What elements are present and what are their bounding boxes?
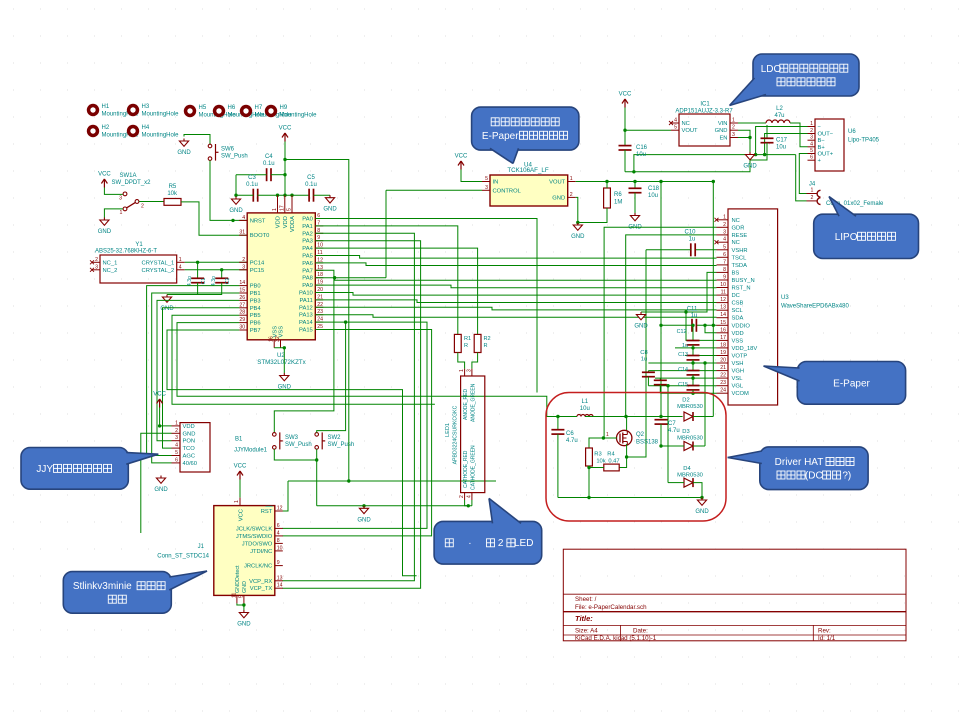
svg-text:L1: L1 (581, 399, 588, 405)
svg-text:21: 21 (720, 365, 726, 371)
svg-text:GND: GND (323, 207, 337, 213)
wire SW3/SW2 commons (274, 449, 316, 460)
wire VSH riser to D3 (704, 363, 706, 446)
svg-text:Size: A4: Size: A4 (575, 628, 598, 635)
svg-text:E-Paper: E-Paper (833, 378, 870, 389)
svg-text:PON: PON (183, 439, 196, 445)
U2 pin 25 PA15 (315, 329, 323, 331)
svg-text:VDD: VDD (276, 216, 282, 228)
svg-text:JRCLK/NC: JRCLK/NC (244, 564, 272, 570)
junction VCC branch (347, 479, 350, 482)
module B1 JJYModule1 (180, 423, 210, 472)
svg-text:GND: GND (571, 234, 585, 240)
J1 pin 12 RST (275, 510, 283, 512)
wire EPD VGH (648, 370, 716, 372)
svg-text:SW_Push: SW_Push (328, 442, 355, 448)
U3 pin 4 NC (717, 241, 729, 243)
resistor R4 0.47 (604, 464, 619, 471)
svg-text:SW6: SW6 (221, 147, 235, 153)
wire R3 bottom to rail (588, 468, 590, 498)
U3 pin 24 VCOM (717, 392, 729, 394)
svg-text:RST_N: RST_N (732, 286, 751, 292)
wire GND to SW6 (184, 135, 210, 145)
callout LIPO charger note (814, 214, 919, 258)
svg-text:4: 4 (810, 141, 813, 147)
svg-text:PC14: PC14 (250, 260, 265, 266)
wire C4 row (236, 174, 267, 176)
svg-text:5: 5 (287, 208, 293, 211)
wire PA1 to LED R1 (315, 226, 458, 335)
J1 pins 11/5 GNDDetect GND (236, 595, 238, 603)
wire PB3 to JJY PON (157, 300, 239, 440)
U2 pin 15 PB1 (239, 292, 247, 294)
svg-text:D2: D2 (682, 398, 689, 404)
svg-text:NC_2: NC_2 (103, 268, 118, 274)
push button SW2 SW_Push (315, 433, 319, 437)
svg-text:2: 2 (95, 257, 98, 263)
junction driver GND (700, 496, 703, 499)
wire EPD VSS to GND (686, 312, 717, 340)
B1 pin 5 AGC (172, 455, 181, 457)
svg-text:5: 5 (810, 148, 813, 154)
svg-text:10u: 10u (776, 145, 786, 151)
svg-text:GND: GND (634, 324, 648, 330)
mounting hole H4 (127, 125, 139, 137)
svg-text:8: 8 (277, 538, 280, 544)
svg-text:22: 22 (720, 373, 726, 379)
capacitor C1 4.3p (197, 262, 199, 278)
svg-text:1: 1 (811, 188, 814, 194)
svg-text:?): ?) (842, 471, 851, 482)
B1 pin 6 40/60 (172, 462, 181, 464)
svg-text:VOTP: VOTP (732, 354, 748, 360)
wire PB4 to JJY TCO (163, 308, 240, 448)
svg-text:2: 2 (570, 192, 573, 198)
svg-text:VIN: VIN (718, 121, 728, 127)
svg-text:C1: C1 (201, 278, 207, 285)
mounting hole H3 (127, 104, 139, 116)
svg-text:40/60: 40/60 (183, 461, 198, 467)
svg-text:C15: C15 (678, 382, 688, 388)
svg-text:7: 7 (723, 259, 726, 265)
wire J1 GND (237, 603, 244, 610)
svg-text:2: 2 (141, 204, 144, 210)
callout load-switch note (472, 107, 579, 150)
svg-text:1u: 1u (691, 313, 698, 319)
junction SW2/PA14 (344, 320, 347, 323)
junction LED cathode (467, 504, 470, 507)
svg-text:1u: 1u (689, 237, 696, 243)
svg-text:GND: GND (552, 195, 565, 201)
wire VCC branch right (285, 160, 349, 482)
svg-text:GNDDetect: GNDDetect (235, 565, 241, 593)
U3 pin 21 VGH (717, 370, 729, 372)
callout E-Paper note (797, 362, 905, 405)
svg-text:OUT+: OUT+ (818, 152, 834, 158)
svg-text:5: 5 (238, 595, 244, 598)
U2 VDD power pins 1/17/5 (277, 195, 279, 213)
svg-text:14: 14 (720, 312, 726, 318)
svg-text:CATHODE_GREEN: CATHODE_GREEN (471, 445, 477, 490)
resistor R1 (454, 334, 461, 352)
junction gate (602, 436, 605, 439)
svg-text:VSHR: VSHR (732, 248, 748, 254)
svg-text:10u: 10u (636, 152, 646, 158)
svg-text:JTDO/SWO: JTDO/SWO (242, 541, 273, 547)
svg-text:1M: 1M (614, 200, 622, 206)
svg-text:17: 17 (720, 335, 726, 341)
U3 pin 14 SDA (717, 317, 729, 319)
capacitor C13 (chain) (692, 345, 694, 356)
U3 pin 17 VSS (717, 339, 729, 341)
connector J1 Conn_ST_STDC14 (214, 506, 275, 596)
callout LDO note (753, 54, 859, 96)
wire EPD VSH (648, 362, 716, 364)
svg-text:6: 6 (175, 457, 178, 463)
svg-text:PA0: PA0 (302, 217, 313, 223)
svg-text:C17: C17 (776, 138, 788, 144)
wire EPD VOTP (685, 355, 717, 357)
capacitor C4 0.1u (266, 168, 268, 181)
ground GND (driver) (701, 498, 703, 501)
svg-text:CRYSTAL_2: CRYSTAL_2 (142, 268, 175, 274)
U4 pin 1 VOUT (568, 181, 576, 183)
svg-text:3: 3 (467, 369, 473, 372)
svg-text:VCC: VCC (619, 92, 632, 98)
wire PB1 to JJY 40/60 (152, 293, 240, 463)
svg-text:PA1: PA1 (302, 224, 313, 230)
U6 pin 3 (808, 139, 816, 141)
load switch U4 TCK106AF_LF (490, 175, 568, 206)
ground GND (SW1A) (103, 218, 105, 221)
svg-text:C18: C18 (648, 186, 660, 192)
U4 pin 2 GND (568, 196, 576, 198)
mounting hole H2 (87, 125, 99, 137)
U3 pin 6 TSCL (717, 256, 729, 258)
svg-text:File: e-PaperCalendar.sch: File: e-PaperCalendar.sch (575, 604, 647, 611)
svg-text:18: 18 (720, 342, 726, 348)
svg-text:C13: C13 (678, 352, 688, 358)
junction VCC/C16 (623, 129, 626, 132)
svg-text:E-Paper: E-Paper (482, 131, 519, 142)
svg-text:PB7: PB7 (250, 328, 261, 334)
U3 pin 10 RST_N (717, 287, 729, 289)
svg-text:RST: RST (261, 509, 273, 515)
svg-text:3: 3 (732, 132, 735, 138)
svg-text:OUT−: OUT− (818, 132, 834, 138)
svg-text:H6: H6 (228, 105, 236, 111)
resistor R5 10k (164, 199, 181, 206)
svg-text:JCLK/SWCLK: JCLK/SWCLK (236, 526, 273, 532)
svg-text:C10: C10 (684, 230, 696, 236)
U2 pin 13 PA7 (315, 269, 323, 271)
svg-text:VOUT: VOUT (682, 128, 699, 134)
svg-text:Rev:: Rev: (818, 628, 831, 635)
svg-text:1: 1 (723, 214, 726, 220)
svg-text:VCC: VCC (455, 154, 468, 160)
wire VDDIO row (697, 324, 717, 326)
wire CRYSTAL_2 to PC15 (185, 269, 248, 271)
transistor Q2 BSS138 (617, 430, 632, 445)
junction rail/D2 riser (712, 180, 715, 183)
svg-text:VCC: VCC (234, 464, 247, 470)
LED LED1 APBD3224CSURKCGKC (461, 376, 485, 493)
svg-text:PA12: PA12 (299, 305, 313, 311)
U2 pin 6 PA0 (315, 218, 323, 220)
svg-text:1: 1 (234, 500, 240, 503)
svg-text:3: 3 (810, 135, 813, 141)
svg-text:·: · (468, 538, 471, 549)
U2 pin 24 PA14 (315, 321, 323, 323)
B1 pin 2 GND (172, 432, 181, 434)
svg-text:MBR0530: MBR0530 (677, 436, 703, 442)
U2 pin 26 PB3 (239, 299, 247, 301)
wire VOUT rail riser (VDDIO/C7) (660, 182, 662, 417)
svg-text:CRYSTAL_1: CRYSTAL_1 (142, 260, 175, 266)
svg-text:C3: C3 (248, 175, 256, 181)
svg-text:3: 3 (175, 435, 178, 441)
switch SW1A SW_DPDT_x2 (104, 188, 122, 195)
IC1 pin 4 NC (671, 122, 679, 124)
svg-text:R3: R3 (594, 452, 601, 458)
wire VDD_18V riser to D2 (712, 182, 714, 417)
callout JJY note (21, 448, 128, 490)
J1 pin 10 JTDI/NC (275, 550, 283, 552)
wire VGL riser to D4 (667, 386, 669, 483)
U2 pin 29 PB6 (239, 322, 247, 324)
wire charge-pump rail VDD_18V (675, 347, 717, 349)
mounting hole H5 (184, 105, 196, 117)
svg-text:ADP151AUJZ-3.3-R7: ADP151AUJZ-3.3-R7 (675, 109, 733, 115)
ground GND (J1) (243, 610, 245, 613)
U2 pin 9 PA3 (315, 240, 323, 242)
U2 pin 10 PA4 (315, 247, 323, 249)
svg-text:BS: BS (732, 270, 740, 276)
svg-text:ANODE_RED: ANODE_RED (463, 388, 469, 420)
wire PB6 to driver (177, 323, 558, 417)
svg-text:24: 24 (720, 388, 726, 394)
svg-text:VDDIO: VDDIO (732, 323, 751, 329)
svg-text:PB0: PB0 (250, 284, 261, 290)
capacitor C11 1u (VDDIO) (691, 319, 693, 332)
U2 pin 2 PC14 (239, 261, 247, 263)
svg-text:Y1: Y1 (135, 242, 143, 248)
svg-text:BSS138: BSS138 (636, 440, 659, 446)
svg-text:1: 1 (732, 118, 735, 124)
svg-text:ANODE_GREEN: ANODE_GREEN (471, 383, 477, 422)
svg-text:SCL: SCL (732, 308, 744, 314)
wire Q2 drain (626, 417, 628, 431)
capacitor C10 1u (690, 243, 692, 256)
svg-text:GND: GND (177, 150, 191, 156)
svg-text:R: R (464, 343, 468, 349)
svg-text:Driver HAT: Driver HAT (775, 457, 824, 468)
U4 pin 5 IN (482, 181, 490, 183)
wire EN tie (738, 137, 750, 139)
svg-text:VGL: VGL (732, 384, 744, 390)
B1 pin 3 PON (172, 440, 181, 442)
svg-text:SW_DPDT_x2: SW_DPDT_x2 (111, 180, 151, 186)
junction VGL riser D4 (666, 384, 669, 387)
svg-text:B+: B+ (818, 145, 826, 151)
junction Q2 drain (624, 415, 627, 418)
U3 pin 15 VDDIO (717, 324, 729, 326)
svg-text:VCC: VCC (279, 126, 292, 132)
wire L2 to B+ (790, 123, 808, 147)
svg-text:Date:: Date: (633, 628, 648, 635)
svg-text:PA9: PA9 (302, 283, 313, 289)
svg-text:H9: H9 (280, 105, 288, 111)
svg-text:4: 4 (467, 495, 473, 498)
ground GND (C5) (329, 195, 331, 198)
svg-text:PB4: PB4 (250, 306, 262, 312)
svg-text:PC15: PC15 (250, 268, 265, 274)
B1 pin 4 TCO (172, 447, 181, 449)
U6 pin 1 (808, 126, 816, 128)
wire VCC to J1 (239, 480, 241, 498)
svg-text:H4: H4 (142, 125, 150, 131)
capacitor C17 10u (766, 125, 768, 138)
wire LED cathode row (317, 505, 469, 507)
svg-text:VSS: VSS (272, 326, 278, 338)
wire OUT- bus to J4 pin2 (796, 155, 807, 201)
wire VCC down to VDD rail (284, 142, 286, 196)
svg-text:Conn_ST_STDC14: Conn_ST_STDC14 (157, 554, 209, 560)
wire PA13 to EPD SDA (315, 315, 716, 318)
svg-text:10k: 10k (167, 191, 178, 197)
svg-text:5: 5 (485, 176, 488, 182)
svg-text:D4: D4 (683, 466, 691, 472)
wire VSS to GND (274, 348, 284, 373)
junction B1 VDD (158, 424, 161, 427)
U2 pin 8 PA2 (315, 232, 323, 234)
svg-text:SW1A: SW1A (119, 173, 136, 179)
wire PA14 to J1 SWCLK (282, 322, 427, 528)
wire U6 pin1 - down (756, 127, 808, 155)
svg-text:J4: J4 (809, 182, 816, 188)
junction VDD/VDDIO (703, 324, 706, 327)
svg-text:C14: C14 (678, 367, 688, 373)
U2 pin 14 PB0 (239, 285, 247, 287)
svg-text:16: 16 (720, 327, 726, 333)
junction OUT- taps (754, 153, 757, 156)
svg-text:AGC: AGC (183, 454, 196, 460)
wire PA3 to J1 VCP_TX (282, 241, 420, 589)
mounting hole H9 (265, 105, 277, 117)
svg-text:SDA: SDA (732, 316, 744, 322)
wire SW1A to GND (104, 209, 122, 218)
svg-text:JJYModule1: JJYModule1 (234, 448, 268, 454)
svg-text:R2: R2 (484, 336, 491, 342)
callout ST-Link note (63, 572, 171, 614)
svg-text:B−: B− (818, 138, 826, 144)
wire PA6 to EPD TSDA (315, 263, 716, 266)
svg-text:C16: C16 (636, 145, 648, 151)
svg-text:4: 4 (175, 443, 178, 449)
wire C3 left / GND riser (236, 194, 253, 196)
junction PA8/BUSY (333, 276, 336, 279)
svg-text:TCK106AF_LF: TCK106AF_LF (507, 167, 548, 174)
svg-text:GND: GND (237, 622, 251, 628)
resistor R6 1M (604, 188, 611, 208)
svg-text:PA11: PA11 (299, 298, 312, 304)
junction EN (748, 136, 751, 139)
svg-text:0.1u: 0.1u (305, 182, 317, 188)
svg-text:5: 5 (674, 125, 677, 131)
svg-text:6: 6 (723, 252, 726, 258)
wire SW6 to NRST (210, 161, 247, 221)
svg-text:(DC: (DC (805, 471, 823, 482)
capacitor C7 4.7u (655, 419, 668, 421)
wire EPD BS to GND (641, 272, 717, 312)
U2 pin 7 PA1 (315, 225, 323, 227)
mounting hole H6 (213, 105, 225, 117)
svg-text:DC: DC (732, 293, 740, 299)
svg-text:VGH: VGH (732, 369, 745, 375)
svg-text:10: 10 (720, 282, 726, 288)
charger U6 Lipo-TP405 (815, 119, 844, 171)
U2 pin 21 PA11 (315, 299, 323, 301)
wire R6 to GND (606, 182, 608, 189)
svg-text:H2: H2 (102, 125, 110, 131)
svg-text:NC_1: NC_1 (103, 260, 118, 266)
svg-text:C4: C4 (265, 154, 273, 160)
U3 pin 22 VSL (717, 377, 729, 379)
svg-text:SW2: SW2 (328, 435, 342, 441)
svg-text:9: 9 (277, 560, 280, 566)
svg-text:10u: 10u (580, 406, 590, 412)
svg-text:SW3: SW3 (285, 435, 299, 441)
svg-text:VCOM: VCOM (732, 391, 750, 397)
svg-text:VOUT: VOUT (549, 180, 566, 186)
inductor L2 47u (738, 122, 766, 124)
svg-text:2: 2 (810, 128, 813, 134)
junction C1 tap (196, 261, 199, 264)
svg-text:1: 1 (120, 210, 123, 216)
capacitor C14 (chain) (692, 360, 694, 371)
svg-text:BUSY_N: BUSY_N (732, 278, 755, 284)
U6 pin 4 (808, 146, 816, 148)
crystal Y1 ABS25-32.768KHZ-6-T (100, 255, 177, 283)
svg-text:U6: U6 (848, 129, 856, 135)
U2 pin 30 PB7 (239, 329, 247, 331)
callout Driver HAT note (760, 447, 868, 490)
U2 pin 23 PA13 (315, 314, 323, 316)
svg-text:1: 1 (810, 121, 813, 127)
svg-text:APBD3224CSURKCGKC: APBD3224CSURKCGKC (453, 405, 459, 464)
svg-text:GND: GND (743, 164, 757, 170)
svg-text:H7: H7 (255, 105, 263, 111)
svg-text:PA13: PA13 (299, 313, 313, 319)
wire LED cathodes (465, 500, 472, 506)
wire Q2 gate to R3 (589, 438, 617, 448)
svg-text:VCP_RX: VCP_RX (249, 579, 272, 585)
svg-text:MountingHole: MountingHole (142, 112, 180, 118)
wire R2 to LED anode (472, 353, 478, 369)
svg-text:6: 6 (277, 523, 280, 529)
wire B1 GND (141, 433, 172, 533)
U3 pin 13 SCL (717, 309, 729, 311)
svg-text:VDD: VDD (283, 216, 289, 228)
wire R5 to BOOT0 (181, 202, 247, 235)
junction L1 left (556, 415, 559, 418)
svg-text:4: 4 (242, 215, 245, 221)
svg-text:TSDA: TSDA (732, 263, 748, 269)
J1 pin 8 JTDO/SWO (275, 542, 283, 544)
svg-text:4.7u: 4.7u (668, 428, 680, 434)
svg-text:13: 13 (277, 575, 283, 581)
svg-text:VSL: VSL (732, 376, 744, 382)
